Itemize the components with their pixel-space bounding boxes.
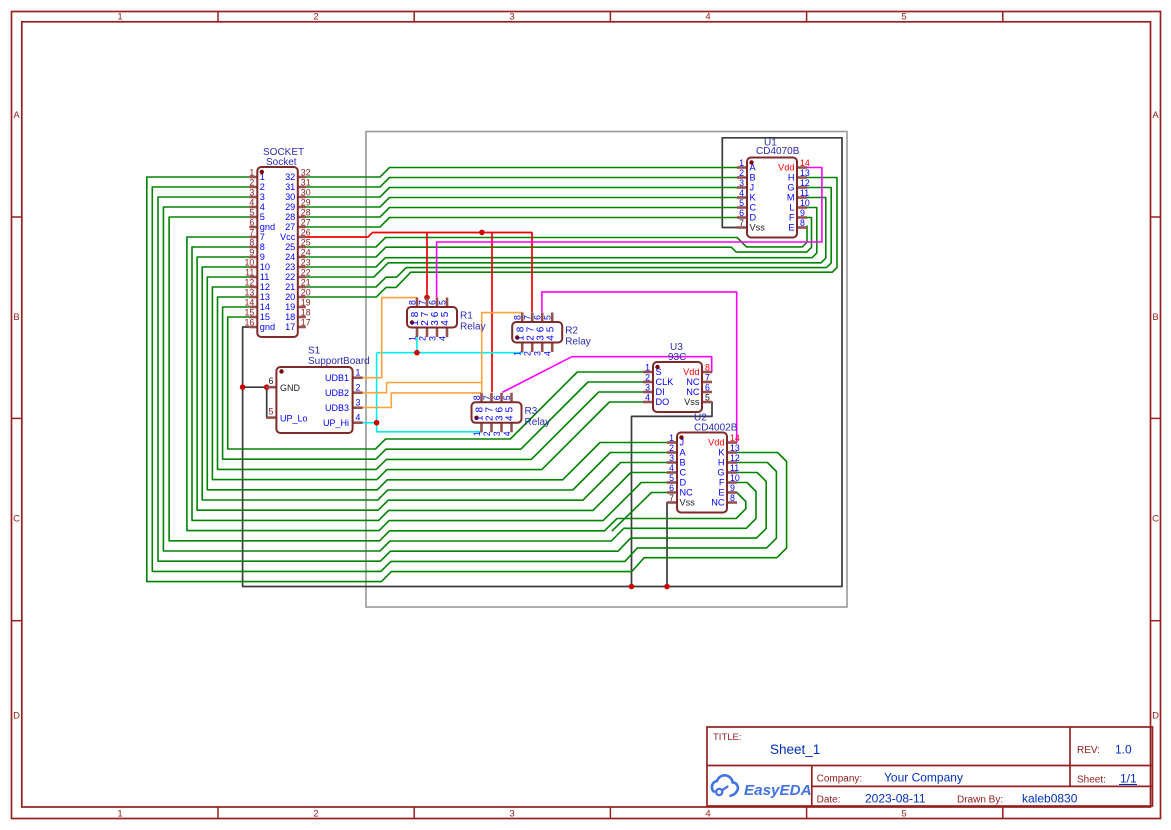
svg-text:13: 13 [260,292,270,302]
svg-text:3: 3 [645,383,650,393]
SOCKET pin 8 stub [249,246,257,249]
U1 pin 3 stub [737,186,747,189]
SOCKET pin 21 stub [298,286,306,289]
wire orange UDB3 -> R3 pin8 [363,393,481,408]
svg-text:29: 29 [301,198,311,208]
svg-text:R1: R1 [460,311,473,322]
svg-text:UP_Lo: UP_Lo [280,414,308,424]
SOCKET pin 28 stub [298,216,306,219]
svg-text:Sheet:: Sheet: [1077,775,1106,786]
svg-text:J: J [750,183,755,193]
svg-text:6: 6 [268,376,273,386]
ruler tick bottom [217,807,219,819]
svg-text:K: K [750,193,757,203]
junction GND S1 left [240,384,246,390]
R3 bottom pin 2 stub [490,423,493,433]
svg-text:31: 31 [285,182,295,192]
svg-text:13: 13 [245,288,255,298]
SOCKET pin 1 stub [249,176,257,179]
wire Vcc drop to R1 pin7 [426,233,428,298]
S1 pin3 stub [353,406,363,409]
wire socket pin21 -> U1 pin12 G [306,188,832,288]
U1 pin 9 stub [797,216,807,219]
wire socket pin9 -> U2 pin3 [197,257,669,510]
svg-text:1: 1 [669,433,674,443]
svg-text:30: 30 [285,192,295,202]
wire socket pin3 -> U2 curl pin11 [158,197,766,561]
S1 pin1 mark [279,369,283,373]
SOCKET pin 4 stub [249,206,257,209]
svg-text:C: C [750,203,757,213]
R2 top pin 5 stub [551,313,554,323]
wire socket pin20 -> U1 pin13 H [306,178,837,298]
U3 pin 6 stub [702,391,712,394]
U3 pin 1 stub [643,371,653,374]
ruler tick top [413,12,415,22]
svg-text:1: 1 [513,351,523,356]
svg-text:5: 5 [268,407,273,417]
svg-text:9: 9 [730,483,735,493]
svg-text:16: 16 [245,318,255,328]
svg-text:2: 2 [356,383,361,393]
R1 top pin 5 stub [446,298,449,308]
svg-text:18: 18 [285,312,295,322]
svg-text:7: 7 [669,493,674,503]
U1 pin 5 stub [737,206,747,209]
svg-text:7: 7 [705,373,710,383]
wire orange UDB2 -> R3 pin8 top [363,383,482,393]
svg-text:32: 32 [285,172,295,182]
svg-text:27: 27 [301,218,311,228]
svg-text:8: 8 [705,363,710,373]
wire GND branch U2 Vss [667,503,669,587]
svg-text:2: 2 [739,168,744,178]
wire socket pin7 -> U2 pin5 [187,237,669,531]
title block h divider 1 [707,765,1153,767]
svg-text:Relay: Relay [460,322,486,333]
U2 pin 11 stub [727,471,737,474]
wire socket pin29 -> U1 pin4 [306,198,739,208]
svg-text:3: 3 [669,453,674,463]
svg-text:Vcc: Vcc [280,232,296,242]
svg-text:CD4070B: CD4070B [756,146,800,157]
wire orange R3 pin8 -> R2 pin8 [482,313,523,393]
svg-text:14: 14 [730,433,740,443]
svg-text:gnd: gnd [260,222,275,232]
svg-text:B: B [680,458,686,468]
svg-text:4: 4 [505,415,516,421]
svg-text:C: C [680,468,687,478]
title block h divider 2 [812,785,1153,787]
U3 pin 8 stub [702,371,712,374]
svg-text:Drawn By:: Drawn By: [957,795,1003,806]
svg-text:8: 8 [800,218,805,228]
svg-text:8: 8 [260,242,265,252]
svg-text:1/1: 1/1 [1120,772,1137,786]
junction Vcc at R3 branch [479,230,485,236]
SOCKET pin 29 stub [298,206,306,209]
wire socket pin5 -> U2 curl pin13 [169,217,746,541]
svg-text:M: M [787,193,795,203]
svg-text:17: 17 [301,318,311,328]
svg-text:1: 1 [117,809,122,820]
svg-text:4: 4 [440,320,451,326]
wire Vcc red: socket pin26 -> R1/R2/R3 pin7 [306,233,532,313]
junction cyan at R1 pin1 [414,350,420,356]
svg-text:3: 3 [739,178,744,188]
svg-text:J: J [680,438,685,448]
svg-text:2023-08-11: 2023-08-11 [865,792,926,806]
U1 pin 4 stub [737,196,747,199]
svg-text:R3: R3 [525,406,538,417]
svg-text:K: K [718,448,725,458]
svg-text:22: 22 [285,272,295,282]
svg-text:14: 14 [245,298,255,308]
SOCKET pin 26 stub [298,236,306,239]
SOCKET pin1 mark [260,170,264,174]
U3 pin 3 stub [643,391,653,394]
wire socket pin25 -> U1 pin8 E [306,226,807,248]
wire Vdd magenta: U1 pin14 -> R1 pin6 [437,168,822,298]
svg-text:2: 2 [313,809,318,820]
R1 bottom pin 2 stub [426,328,429,338]
svg-text:4: 4 [502,431,512,436]
svg-text:15: 15 [260,312,270,322]
svg-text:9: 9 [800,208,805,218]
underline 1/1 [1119,784,1137,786]
S1 pin2 stub [353,391,363,394]
U1 pin 7 stub [737,226,747,229]
svg-text:5: 5 [669,473,674,483]
svg-text:D: D [750,213,757,223]
svg-text:R2: R2 [565,326,578,337]
SOCKET pin 15 stub [249,316,257,319]
R2 bottom pin 1 stub [521,343,524,353]
wire GND branch to S1 [242,387,269,417]
svg-text:3: 3 [249,188,254,198]
svg-text:Vdd: Vdd [778,163,794,173]
wire socket pin8 -> U2 pin4 [192,247,669,520]
svg-text:29: 29 [285,202,295,212]
svg-text:F: F [789,213,795,223]
svg-text:10: 10 [730,473,740,483]
SOCKET pin 7 stub [249,236,257,239]
R2 top pin 8 stub [521,313,524,323]
U1 pin 6 stub [737,216,747,219]
SOCKET pin 11 stub [249,276,257,279]
svg-text:H: H [718,458,725,468]
svg-text:kaleb0830: kaleb0830 [1022,792,1078,806]
R2 top pin 7 stub [531,313,534,323]
svg-text:14: 14 [260,302,270,312]
svg-text:1: 1 [645,363,650,373]
R1 bottom pin 3 stub [436,328,439,338]
SOCKET pin 10 stub [249,266,257,269]
svg-text:6: 6 [739,208,744,218]
svg-text:2: 2 [313,12,318,23]
svg-text:NC: NC [680,488,694,498]
ruler tick top [806,12,808,22]
U3 pin 7 stub [702,381,712,384]
U1 pin 11 stub [797,196,807,199]
svg-text:4: 4 [249,198,254,208]
svg-text:23: 23 [285,262,295,272]
SOCKET pin 24 stub [298,256,306,259]
SOCKET pin 19 stub [298,306,306,309]
svg-text:4: 4 [356,413,361,423]
svg-text:5: 5 [543,315,553,320]
U1 pin 8 stub [797,226,807,229]
svg-text:11: 11 [800,188,809,198]
svg-text:L: L [789,203,794,213]
svg-text:10: 10 [800,198,810,208]
svg-text:4: 4 [669,463,674,473]
svg-text:8: 8 [472,395,482,400]
SOCKET pin 31 stub [298,186,306,189]
R3 top pin 5 stub [510,393,513,403]
svg-text:G: G [717,468,724,478]
wire cyan: S1 UP_Hi -> R1/R2/R3 pin1 [363,422,377,424]
svg-text:S: S [656,367,662,377]
svg-text:3: 3 [260,192,265,202]
svg-text:2: 2 [418,336,428,341]
svg-text:2: 2 [260,182,265,192]
U2 pin 6 stub [667,491,677,494]
wire GND branch U3 Vss [632,402,713,587]
svg-text:2: 2 [645,373,650,383]
wire socket pin1 -> U2 curl pin9 [147,177,787,582]
ruler tick left [12,216,22,218]
svg-text:4: 4 [705,809,710,820]
svg-text:23: 23 [301,258,311,268]
SOCKET pin 13 stub [249,296,257,299]
svg-text:5: 5 [739,198,744,208]
junction GND U2 branch [664,584,670,590]
svg-text:5: 5 [502,395,512,400]
R3 top pin 6 stub [500,393,503,403]
svg-text:25: 25 [301,238,311,248]
wire socket pin23 -> U1 pin10 L [306,208,817,268]
R3 pin1 mark [474,416,478,420]
SOCKET pin 18 stub [298,316,306,319]
svg-text:8: 8 [408,300,418,305]
svg-text:6: 6 [492,395,502,400]
ruler tick top [217,12,219,22]
title block v divider logo [811,766,813,807]
U1 pin 2 stub [737,176,747,179]
SOCKET pin 17 stub [298,326,306,329]
svg-text:A: A [750,163,757,173]
SOCKET pin 23 stub [298,266,306,269]
svg-text:A: A [680,448,687,458]
R3 bottom pin 4 stub [510,423,513,433]
svg-text:25: 25 [285,242,295,252]
wire socket pin2 -> U2 curl pin10 [152,187,776,571]
wire socket pin31 -> U1 pin2 [306,178,739,188]
R1 top pin 6 stub [436,298,439,308]
svg-text:1: 1 [117,12,122,23]
U1 pin 12 stub [797,186,807,189]
U2 pin 10 stub [727,481,737,484]
svg-text:2: 2 [249,178,254,188]
svg-text:27: 27 [285,222,295,232]
R1 bottom pin 4 stub [446,328,449,338]
wire socket pin28 -> U1 pin5 [306,208,739,218]
svg-text:5: 5 [901,12,906,23]
wire cyan R1 pin1 drop [416,337,418,353]
svg-text:13: 13 [730,443,740,453]
svg-text:UDB2: UDB2 [325,388,349,398]
svg-text:20: 20 [285,292,295,302]
R2 bottom pin 3 stub [541,343,544,353]
svg-text:4: 4 [260,202,265,212]
svg-text:12: 12 [245,278,255,288]
U1 pin 1 stub [737,166,747,169]
SOCKET pin 30 stub [298,196,306,199]
svg-text:Date:: Date: [817,795,841,806]
svg-text:28: 28 [301,208,311,218]
svg-text:2: 2 [482,431,492,436]
ruler tick top [609,12,611,22]
svg-text:2: 2 [669,443,674,453]
svg-text:5: 5 [545,326,556,332]
svg-text:Relay: Relay [525,417,551,428]
svg-text:Vss: Vss [680,498,696,508]
R1 top pin 8 stub [416,298,419,308]
svg-text:7: 7 [739,218,744,228]
U2 pin 4 stub [667,471,677,474]
svg-text:G: G [787,183,794,193]
svg-text:Vss: Vss [684,397,700,407]
R2 bottom pin 2 stub [531,343,534,353]
svg-text:1: 1 [249,168,254,178]
svg-text:28: 28 [285,212,295,222]
SOCKET pin 25 stub [298,246,306,249]
SOCKET pin 2 stub [249,186,257,189]
svg-text:B: B [13,312,19,323]
U3 pin 4 stub [643,401,653,404]
U2 pin 13 stub [727,451,737,454]
svg-text:12: 12 [800,178,810,188]
svg-text:32: 32 [301,168,311,178]
R2 pin1 mark [515,335,519,339]
svg-text:5: 5 [438,300,448,305]
svg-text:5: 5 [260,212,265,222]
U1 pin 14 stub [797,166,807,169]
svg-text:1: 1 [260,172,265,182]
svg-text:Company:: Company: [817,774,863,785]
svg-text:E: E [788,223,794,233]
title block [707,727,1153,806]
U2 pin 9 stub [727,491,737,494]
svg-text:D: D [13,711,20,722]
svg-text:REV:: REV: [1077,745,1100,756]
svg-text:H: H [788,173,795,183]
svg-text:24: 24 [301,248,311,258]
svg-text:12: 12 [730,453,740,463]
svg-text:10: 10 [260,262,270,272]
svg-text:UDB3: UDB3 [325,403,349,413]
svg-text:20: 20 [301,288,311,298]
R1 pin1 mark [410,320,414,324]
wire socket pin32 -> U1 pin1 [306,168,739,178]
wire socket pin4 -> U2 curl pin12 [163,207,756,551]
R1 bottom pin 1 stub [416,328,419,338]
R2 top pin 6 stub [541,313,544,323]
svg-text:4: 4 [545,335,556,341]
svg-text:Relay: Relay [565,337,591,348]
U1 pin 10 stub [797,206,807,209]
svg-text:13: 13 [800,168,810,178]
wire socket pin24 -> U1 pin9 F [306,218,812,258]
ruler tick right [1151,620,1161,622]
svg-text:9: 9 [260,252,265,262]
S1 pin1 stub [353,376,363,379]
U3 pin 5 stub [702,401,712,404]
svg-text:8: 8 [730,493,735,503]
S1 pin4 stub [353,421,363,424]
U2 pin 1 stub [667,441,677,444]
svg-text:S1: S1 [308,346,321,357]
gray schematic frame [366,132,847,608]
SOCKET pin 16 stub [249,326,257,329]
SOCKET pin 14 stub [249,306,257,309]
svg-text:3: 3 [533,351,543,356]
U2 pin 7 stub [667,501,677,504]
junction GND S1 pin6 [264,384,270,390]
SOCKET pin 27 stub [298,226,306,229]
R3 top pin 7 stub [490,393,493,403]
ruler tick left [12,417,22,419]
U2 pin 14 stub [727,441,737,444]
svg-text:15: 15 [245,308,255,318]
svg-text:5: 5 [901,809,906,820]
svg-text:C: C [13,514,20,525]
wire socket pin22 -> U1 pin11 M [306,198,826,278]
svg-text:D: D [1152,711,1159,722]
svg-text:4: 4 [645,393,650,403]
svg-text:Vdd: Vdd [708,438,724,448]
svg-text:7: 7 [418,300,428,305]
U3 pin1 mark [655,365,659,369]
svg-text:3: 3 [509,809,514,820]
svg-text:3: 3 [509,12,514,23]
svg-text:12: 12 [260,282,270,292]
wire Vcc drop to R3 pin7 [491,233,493,393]
svg-text:GND: GND [280,383,301,393]
svg-text:Vdd: Vdd [683,367,699,377]
svg-text:11: 11 [260,272,270,282]
R3 bottom pin 1 stub [480,423,483,433]
svg-text:7: 7 [523,315,533,320]
svg-text:NC: NC [686,387,700,397]
svg-text:NC: NC [686,377,700,387]
svg-text:4: 4 [705,12,710,23]
R2 bottom pin 4 stub [551,343,554,353]
U3 pin 2 stub [643,381,653,384]
svg-text:F: F [719,478,725,488]
ruler tick bottom [413,807,415,819]
wire socket pin10 -> U2 pin2 [202,267,669,500]
svg-text:14: 14 [800,158,810,168]
svg-text:7: 7 [482,395,492,400]
S1 pin6 stub [266,386,276,389]
svg-text:8: 8 [249,238,254,248]
svg-text:6: 6 [669,483,674,493]
svg-text:TITLE:: TITLE: [713,732,742,743]
svg-text:1: 1 [408,336,418,341]
svg-text:21: 21 [301,278,311,288]
